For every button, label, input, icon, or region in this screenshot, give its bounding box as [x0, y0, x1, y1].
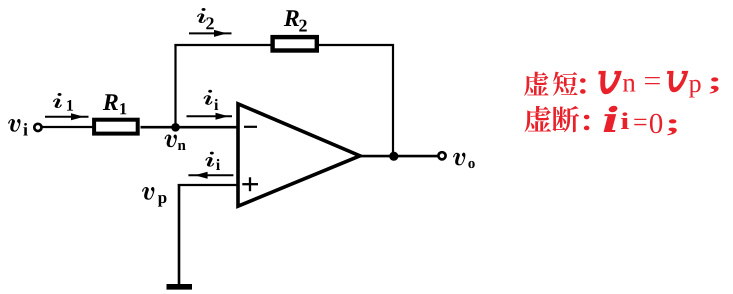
- input terminal circle: [34, 124, 41, 131]
- label v_i : v: [8, 119, 20, 132]
- output terminal circle: [438, 152, 445, 159]
- wire plus input: [178, 184, 238, 186]
- node v_n dot: [171, 123, 180, 132]
- red zero line2: [650, 114, 662, 134]
- label v_p : v: [142, 187, 154, 200]
- red semicolon line1: [710, 77, 719, 93]
- wire feedback top horizontal: [174, 44, 271, 46]
- resistor R1: [94, 120, 138, 134]
- red v (v_p) line1: [667, 71, 687, 91]
- wire op-amp output: [359, 155, 438, 158]
- resistor R2: [273, 37, 317, 50]
- label i_2 : i: [197, 8, 206, 23]
- label v_n : v: [165, 134, 177, 147]
- label R2: [284, 10, 299, 26]
- output node dot: [389, 152, 398, 161]
- wire R1 to op-amp: [141, 126, 238, 129]
- red equals line2: [634, 119, 646, 125]
- red char 虚 line1: [524, 72, 549, 96]
- wire to ground: [178, 184, 181, 285]
- label R2 subscript 2: [299, 20, 306, 32]
- red char 短 line1: [553, 72, 578, 96]
- label v_o : v: [453, 153, 465, 166]
- op-amp minus sign: [244, 126, 257, 128]
- red equals line1: [645, 77, 660, 84]
- wire feedback left vertical: [174, 44, 176, 127]
- label R1: [103, 94, 118, 110]
- label i_i lower subscript i: [216, 159, 220, 170]
- current arrow i2: [189, 30, 232, 37]
- red char 虚 line2: [525, 106, 552, 132]
- red subscript i line2: [621, 112, 629, 129]
- label R1 subscript 1: [120, 103, 126, 114]
- red subscript n line1: [623, 79, 635, 92]
- ground symbol: [167, 284, 193, 290]
- red v (v_n) line1: [599, 71, 621, 93]
- red char 断 line2: [553, 106, 580, 132]
- red semicolon line2: [667, 119, 676, 135]
- wire input to R1: [42, 126, 94, 128]
- label i_1 subscript 1: [67, 100, 73, 111]
- current arrow i_i upper: [187, 113, 233, 120]
- red colon line1: [580, 78, 586, 94]
- red i line2: [604, 106, 618, 132]
- label i_i upper subscript i: [214, 99, 218, 110]
- label v_i subscript i: [23, 123, 27, 135]
- red colon line2: [584, 115, 590, 131]
- current arrow i1: [45, 113, 89, 120]
- label v_n subscript n: [178, 143, 186, 150]
- op-amp plus sign: [242, 177, 258, 191]
- op-amp U1 triangle: [238, 104, 360, 206]
- label v_p subscript p: [158, 195, 167, 207]
- current arrow i_i lower: [188, 172, 233, 179]
- label i_i lower : i: [205, 152, 214, 167]
- label i_2 subscript 2: [206, 17, 213, 29]
- label i_i upper : i: [204, 90, 213, 105]
- wire feedback right vertical: [392, 44, 394, 156]
- red subscript p line1: [689, 80, 701, 98]
- label v_o subscript o: [468, 161, 474, 168]
- wire R2 to right vertical: [319, 44, 395, 46]
- label i_1 : i: [53, 93, 62, 108]
